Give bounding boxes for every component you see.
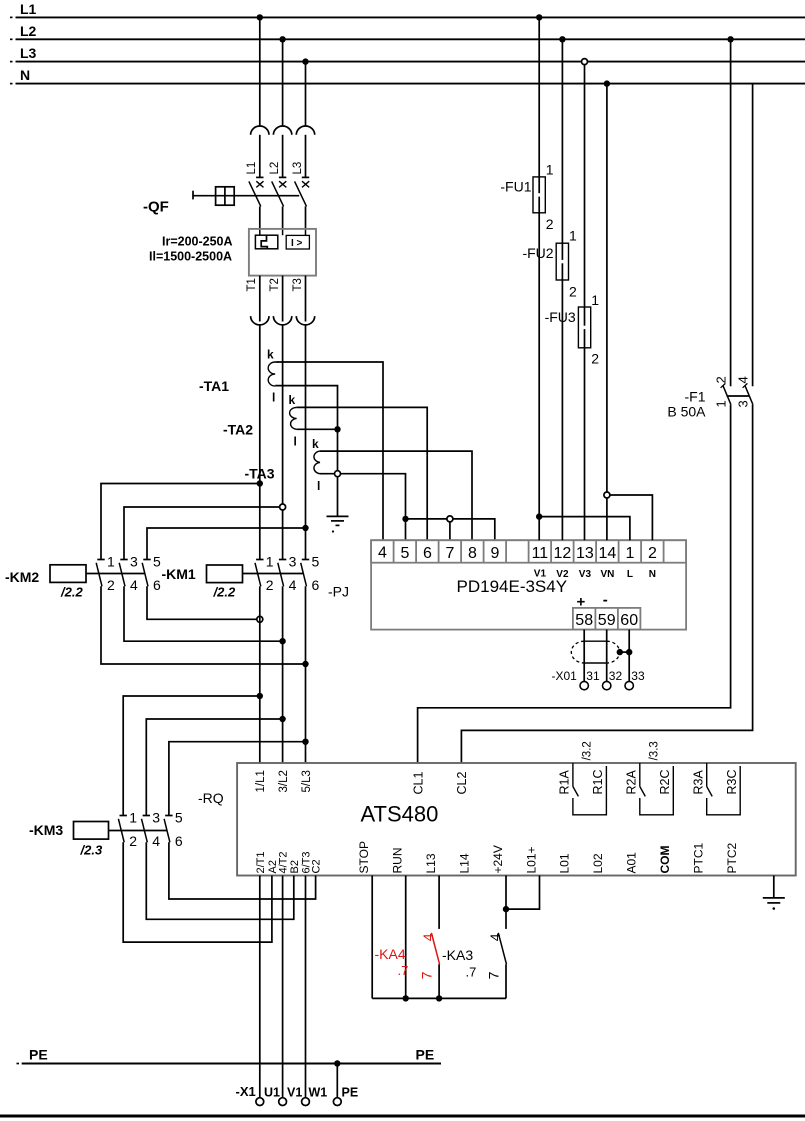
svg-text:R2A: R2A [625, 770, 639, 795]
QF trip unit internal stubs [260, 229, 306, 235]
svg-text:2: 2 [266, 577, 274, 593]
junction dot branch/FU1 wire [536, 513, 542, 519]
svg-text:k: k [289, 393, 296, 407]
svg-text:.7: .7 [398, 963, 409, 978]
svg-text:I >: I > [291, 238, 303, 249]
ATS relay pin labels R1A..R3C [558, 769, 739, 794]
shorting link dashed left arc [571, 641, 584, 663]
contactor KM1 blades [255, 563, 307, 587]
contactor KM3 contact ticks [120, 815, 173, 817]
wire arc to QF contact pole1 [259, 135, 261, 178]
wire KM2 pole2 bottom [124, 586, 283, 641]
link wire to terminal 60 wire [620, 651, 630, 653]
F1 pin labels 1 2 3 4 [713, 376, 750, 407]
svg-text:4: 4 [289, 577, 297, 593]
svg-text:PE: PE [29, 1047, 48, 1063]
svg-text:RUN: RUN [391, 848, 405, 874]
svg-text:R3C: R3C [725, 769, 739, 794]
svg-text:L1: L1 [246, 162, 258, 175]
wire L1 through FU1 to meter 11 [538, 17, 540, 540]
svg-text:L01: L01 [558, 853, 572, 873]
svg-text:L14: L14 [457, 853, 471, 873]
wire KM3 pole3 bottom to ATS C2 [169, 842, 316, 899]
svg-text:2: 2 [648, 545, 657, 562]
wire terminal 58 to X01:31 [583, 630, 585, 682]
svg-text:/3.2: /3.2 [582, 741, 594, 760]
wire PE bus to X1 PE [336, 1064, 338, 1098]
ATS CL1 CL2 pin labels [411, 772, 469, 795]
bus L2 [10, 38, 805, 40]
wire L3 through FU3 to meter 13 [584, 62, 586, 541]
svg-text:R3A: R3A [691, 770, 705, 795]
QF trip unit box [249, 229, 316, 276]
fuse FU1 [533, 177, 545, 213]
svg-text:T1: T1 [246, 278, 258, 291]
KM3 linkage line [109, 830, 168, 832]
wire TA2 l to ground line [297, 428, 338, 430]
ATS bottom control pin labels [357, 841, 739, 873]
wire QF blade to trip box pole1 [259, 206, 261, 229]
junction dot KM3 pole1 / L1 line [257, 693, 263, 699]
svg-text:-X01: -X01 [552, 669, 578, 683]
svg-text:CL1: CL1 [411, 772, 425, 795]
svg-text:-X1: -X1 [236, 1084, 256, 1099]
svg-text:3: 3 [152, 810, 160, 826]
svg-text:-FU3: -FU3 [545, 309, 576, 325]
svg-text:7: 7 [486, 971, 502, 979]
svg-text:PE: PE [342, 1086, 359, 1100]
terminal circle X1 PE [333, 1098, 341, 1106]
KM3 contact numbers 1-6 [129, 810, 183, 850]
KM1 linkage line [243, 573, 304, 575]
svg-text:3: 3 [736, 400, 751, 407]
junction dot KM3 pole3 / L3 line [302, 739, 308, 745]
svg-text:7: 7 [419, 971, 435, 979]
svg-text:4: 4 [152, 833, 160, 849]
wire QF blade to trip box pole3 [305, 206, 307, 229]
svg-text:4: 4 [736, 376, 751, 383]
meter terminal cells row [371, 540, 686, 563]
branch wire FU1 feed to meter L terminal [539, 517, 630, 541]
svg-text:4: 4 [130, 577, 138, 593]
svg-text:l: l [294, 435, 297, 449]
svg-text:k: k [267, 348, 274, 362]
relay R3 contact bracket [707, 763, 741, 815]
junction dot L2/FU2 wire [559, 36, 565, 42]
svg-text:6: 6 [153, 577, 161, 593]
wire KM2 pole1 bottom [101, 586, 306, 664]
breaker QF x-marks [256, 181, 309, 187]
junction circle TA3 l / ground line [335, 471, 341, 477]
svg-text:14: 14 [599, 545, 617, 562]
fuse FU3 [578, 307, 590, 348]
wire N to meter 14 [606, 84, 608, 541]
svg-text:1: 1 [129, 810, 137, 826]
wire KM1 pole2 to ATS 3/L2 [282, 586, 284, 763]
junction dot +24V / L01+ branch [503, 906, 509, 912]
wire KM2 pole3 bottom [147, 586, 260, 619]
ATS functional earth stem [773, 876, 775, 898]
junction dot link/wire60 [626, 649, 632, 655]
svg-text:CL2: CL2 [455, 772, 469, 795]
svg-text:/2.2: /2.2 [60, 585, 83, 600]
junction dot common l / terminal 5 [402, 516, 408, 522]
svg-text:-TA3: -TA3 [245, 466, 275, 482]
ATS functional earth symbol [763, 898, 785, 910]
svg-text:5: 5 [400, 545, 409, 562]
wire TA1 l to ground line [275, 386, 337, 516]
svg-text:4: 4 [378, 545, 387, 562]
junction circle KM2 pole2 / L2 line [280, 504, 286, 510]
svg-text:5/L3: 5/L3 [301, 770, 313, 792]
branch wire to L01+ [506, 876, 540, 910]
svg-text:6: 6 [175, 833, 183, 849]
svg-text:4: 4 [487, 933, 503, 941]
withdrawable socket arcs above QF (3 phases) [251, 126, 315, 135]
svg-text:2: 2 [713, 376, 728, 383]
svg-text:2: 2 [591, 351, 599, 367]
svg-text:U1: U1 [264, 1086, 280, 1100]
junction circle common l / terminal 7 [447, 516, 453, 522]
svg-text:L3: L3 [20, 45, 37, 61]
svg-text:B 50A: B 50A [667, 404, 706, 420]
svg-text:5: 5 [175, 810, 183, 826]
wire terminal 60 to X01:33 [628, 630, 630, 682]
shorting link dashed right arc [607, 641, 620, 663]
wire L2 to breaker F1 pole1 [730, 39, 732, 386]
junction circle L3/FU3 wire [582, 59, 588, 65]
junction circle KM2 pole3 / L1 [257, 616, 263, 622]
meter terminal numbers [378, 545, 657, 562]
wire KM3 pole3 top to L3 line [169, 742, 306, 816]
junction dot L1/FU1 wire [536, 14, 542, 20]
junction dot KM2 pole2 / L2 [279, 638, 285, 644]
wire KM2 pole2 top to L2 [124, 507, 283, 560]
svg-text:A01: A01 [625, 852, 639, 874]
ATS bottom-left pin labels 2/T1 A2 4/T2 B2 6/T3 C2 [255, 851, 323, 873]
svg-text:5: 5 [312, 554, 320, 570]
svg-text:2: 2 [107, 577, 115, 593]
svg-text:R1C: R1C [591, 769, 605, 794]
svg-text:L3: L3 [292, 162, 304, 175]
bus N [10, 83, 805, 85]
junction dot L1/pole1 [257, 14, 263, 20]
svg-text:2: 2 [129, 833, 137, 849]
junction dot KM3 pole2 / L2 line [279, 716, 285, 722]
svg-text:58: 58 [575, 612, 593, 629]
junction dot RUN/control bus [403, 995, 409, 1001]
terminal circle X01:32 [603, 681, 611, 689]
QF mechanism linkage line [193, 195, 299, 197]
contactor KM1 contact ticks [256, 559, 309, 561]
svg-text:-PJ: -PJ [328, 584, 349, 600]
svg-text:1: 1 [713, 400, 728, 407]
svg-text:-QF: -QF [143, 199, 169, 216]
wire KM3 pole2 top to L2 line [146, 719, 282, 816]
svg-text:L: L [627, 569, 633, 580]
svg-text:32: 32 [609, 669, 623, 683]
junction dot PE bus [334, 1060, 340, 1066]
CT TA3 secondary winding [314, 451, 320, 474]
svg-text:6: 6 [423, 545, 432, 562]
contactor KM2 contact ticks [97, 559, 150, 561]
svg-text:7: 7 [445, 545, 454, 562]
trip unit magnetic icon box (I>) [286, 235, 309, 249]
junction dot KM2 pole1 / L1 line [257, 480, 263, 486]
svg-text:12: 12 [554, 545, 572, 562]
contactor KM3 blades [118, 819, 169, 843]
svg-text:PE: PE [416, 1047, 435, 1063]
wire KM3 pole1 bottom to ATS A2 [123, 842, 272, 942]
shorting link rails 58-59 [584, 641, 607, 663]
svg-text:59: 59 [598, 612, 616, 629]
KM2 contact numbers 1-6 [107, 554, 161, 594]
wire KM3 pole2 bottom to ATS B2 [146, 842, 293, 919]
wire L3 drop to QF pole3 [305, 62, 307, 126]
soft starter RQ (ATS480) box [237, 763, 796, 876]
wire drop into terminal 7 [449, 519, 451, 540]
wire arc to QF contact pole3 [305, 135, 307, 178]
ground symbol (CT secondary earth) [327, 516, 349, 532]
fuse FU2 [556, 243, 568, 280]
svg-text:k: k [312, 437, 319, 451]
svg-text:1: 1 [591, 292, 599, 308]
junction dot KM2 pole1 / L3 [302, 661, 308, 667]
wire lower arcs to TA region pole3 [305, 325, 307, 560]
common l wire to meter terminals 5 7 9 [406, 519, 495, 540]
bus L3 [10, 61, 805, 63]
ATS top pin labels [255, 770, 313, 792]
junction dot N/meter wire [604, 80, 610, 86]
svg-text:33: 33 [631, 669, 645, 683]
wire ATS L13 to KA4 contact [438, 876, 440, 929]
svg-text:L1: L1 [20, 1, 37, 17]
junction dot KM2 pole3 / L3 line [302, 525, 308, 531]
svg-text:5: 5 [153, 554, 161, 570]
meter PJ outer box [371, 540, 686, 629]
terminal circle X1 V1 [279, 1098, 287, 1106]
wire arc to QF contact pole2 [282, 135, 284, 178]
wire L1 drop to QF pole1 [259, 17, 261, 126]
junction dot L13 wire/control bus [436, 995, 442, 1001]
wire TA2 k to meter terminal 6 [297, 407, 428, 540]
breaker F1 x-hooks [721, 383, 748, 387]
svg-text:1: 1 [266, 554, 274, 570]
wire F1 pole1 to ATS CL1 [418, 405, 731, 763]
QF pole labels L1 L2 L3 [246, 162, 304, 175]
wire ATS STOP down to control bus [371, 876, 373, 999]
svg-text:3: 3 [130, 554, 138, 570]
wire L2 through FU2 to meter 12 [561, 39, 563, 540]
svg-text:VN: VN [600, 569, 614, 580]
terminal circle X1 U1 [256, 1098, 264, 1106]
svg-text:-F1: -F1 [685, 389, 706, 405]
svg-text:60: 60 [620, 612, 638, 629]
wire KM1 pole3 to ATS 5/L3 [305, 586, 307, 763]
svg-text:L2: L2 [269, 162, 281, 175]
terminal circle X01:33 [625, 681, 633, 689]
junction circle branch/N wire [604, 492, 610, 498]
svg-text:+24V: +24V [491, 845, 505, 873]
svg-text:STOP: STOP [357, 841, 371, 873]
KM1 operator box [207, 565, 243, 583]
svg-text:9: 9 [490, 545, 499, 562]
PE bus line [17, 1063, 442, 1065]
svg-text:V1: V1 [287, 1086, 302, 1100]
KM2 operator box [50, 565, 86, 583]
svg-text:l: l [272, 391, 275, 405]
svg-text:3: 3 [289, 554, 297, 570]
svg-text:-KM1: -KM1 [162, 566, 196, 582]
svg-text:/2.2: /2.2 [213, 585, 236, 600]
svg-text:-KM3: -KM3 [29, 822, 63, 838]
junction dot TA2 l / ground line [334, 426, 340, 432]
svg-text:B2: B2 [289, 860, 301, 873]
svg-text:L01+: L01+ [524, 846, 538, 873]
svg-text:L13: L13 [424, 853, 438, 873]
numbers 58 59 60 [575, 612, 638, 629]
wire ATS 4/T2 to X1 V1 [282, 876, 284, 1098]
QF operator box (crossed square) [216, 187, 235, 205]
KM1 contact numbers 1-6 [266, 554, 320, 594]
wire KA3 to control bus [505, 964, 507, 998]
junction dot L2/pole2 [279, 36, 285, 42]
wire lower arcs to TA region pole1 [259, 325, 261, 560]
svg-text:1/L1: 1/L1 [255, 770, 267, 792]
svg-text:T3: T3 [292, 278, 304, 291]
wire drop into terminal 5 [405, 519, 407, 540]
svg-text:COM: COM [658, 846, 672, 874]
svg-text:R1A: R1A [558, 770, 572, 795]
svg-text:PTC2: PTC2 [725, 843, 739, 874]
svg-text:-FU2: -FU2 [522, 245, 553, 261]
svg-text:-FU1: -FU1 [500, 179, 531, 195]
wire trip box to lower arcs T1 [259, 276, 261, 322]
KM2 linkage line [86, 573, 145, 575]
junction dot L3/pole3 [302, 58, 308, 64]
svg-text:-KM2: -KM2 [5, 569, 39, 585]
svg-text:-RQ: -RQ [198, 790, 224, 806]
svg-text:N: N [20, 67, 30, 83]
svg-text:2: 2 [546, 216, 554, 232]
svg-text:11: 11 [532, 545, 549, 562]
relay R2 contact bracket [640, 763, 674, 815]
svg-text:-KA3: -KA3 [442, 947, 473, 963]
breaker F1 blades [723, 385, 753, 404]
wire lower arcs to TA region pole2 [282, 325, 284, 560]
svg-text:W1: W1 [309, 1086, 328, 1100]
wire trip box to lower arcs T2 [282, 276, 284, 322]
wire KM3 pole1 top to L1 line [123, 696, 260, 816]
junction dot L2/F1 wire [727, 36, 733, 42]
wire KM2 pole3 top to L3 [147, 528, 306, 560]
svg-text:1: 1 [569, 228, 577, 244]
svg-text:Ir=200-250A: Ir=200-250A [162, 235, 233, 249]
meter voltage pin labels V1 V2 V3 VN L N [534, 569, 656, 580]
svg-text:-TA1: -TA1 [199, 378, 229, 394]
svg-text:V3: V3 [579, 569, 592, 580]
relay R1 contact bracket [573, 763, 607, 815]
svg-text:PD194E-3S4Y: PD194E-3S4Y [457, 577, 568, 596]
wire TA3 l to common l line [320, 474, 406, 519]
CT TA2 secondary winding [290, 407, 297, 429]
breaker QF blades [249, 181, 307, 206]
relay contact KA3 blade [498, 933, 506, 965]
wire N to breaker F1 pole2 [752, 84, 754, 387]
svg-text:N: N [649, 569, 656, 580]
svg-text:2: 2 [569, 284, 577, 300]
drawing frame bottom line [0, 1115, 805, 1118]
svg-text:l: l [317, 479, 320, 493]
svg-text:8: 8 [468, 545, 477, 562]
wire ATS 6/T3 to X1 W1 [305, 876, 307, 1098]
svg-text:1: 1 [546, 162, 554, 178]
svg-text:2/T1: 2/T1 [255, 851, 267, 873]
svg-text:ATS480: ATS480 [361, 802, 439, 827]
wire KM2 pole1 top to L1 [101, 484, 260, 560]
wire KA4 to control bus [438, 964, 440, 998]
svg-text:L2: L2 [20, 23, 37, 39]
svg-text:C2: C2 [311, 859, 323, 873]
svg-text:4: 4 [420, 933, 436, 941]
svg-text:.7: .7 [466, 965, 477, 980]
svg-text:-KA4: -KA4 [375, 946, 406, 962]
svg-text:PTC1: PTC1 [692, 843, 706, 874]
KM3 operator box [74, 822, 109, 840]
svg-text:L02: L02 [591, 853, 605, 873]
breaker QF fixed-contact ticks [256, 176, 309, 178]
CT TA1 secondary winding [268, 362, 275, 386]
wire ATS 2/T1 to X1 U1 [259, 876, 261, 1098]
wire F1 pole2 to ATS CL2 [461, 405, 752, 763]
svg-text:13: 13 [576, 545, 594, 562]
wire L2 drop to QF pole2 [282, 39, 284, 126]
svg-text:4/T2: 4/T2 [278, 851, 290, 873]
withdrawable plug arcs below QF (3 phases) [251, 316, 315, 325]
svg-text:-: - [603, 592, 608, 609]
wire TA3 k to meter terminal 8 [320, 451, 472, 540]
terminal circle X1 W1 [302, 1098, 310, 1106]
wire trip box to lower arcs T3 [305, 276, 307, 322]
contactor KM2 blades [96, 563, 148, 587]
wire terminal 59 to X01:32 [606, 630, 608, 682]
svg-text:T2: T2 [269, 278, 281, 291]
svg-text:/2.3: /2.3 [80, 843, 103, 858]
wire ATS RUN down to control bus [405, 876, 407, 999]
svg-text:Il=1500-2500A: Il=1500-2500A [149, 250, 232, 264]
wire KM1 pole1 to ATS 1/L1 [259, 586, 261, 763]
bus labels L1 L2 L3 N [20, 1, 37, 83]
svg-text:6: 6 [312, 577, 320, 593]
wire QF blade to trip box pole2 [282, 206, 284, 229]
meter cells 58 59 60 [573, 608, 641, 630]
F1 linkage bar [727, 395, 749, 397]
control bus wire [372, 997, 506, 999]
QF pole labels T1 T2 T3 [246, 278, 304, 291]
svg-text:1: 1 [625, 545, 634, 562]
bus L1 [10, 16, 805, 18]
svg-text:31: 31 [586, 669, 600, 683]
wire ATS +24V down [505, 876, 507, 929]
terminal circle X01:31 [580, 681, 588, 689]
relay contact KA4 (red) blade [431, 933, 439, 965]
junction dot link/arc [617, 649, 623, 655]
svg-text:3/L2: 3/L2 [278, 770, 290, 792]
trip unit thermal icon box [255, 235, 277, 249]
QF linkage left tick [192, 191, 194, 200]
branch wire N feed to meter N terminal [607, 495, 653, 540]
svg-text:-TA2: -TA2 [223, 422, 253, 438]
